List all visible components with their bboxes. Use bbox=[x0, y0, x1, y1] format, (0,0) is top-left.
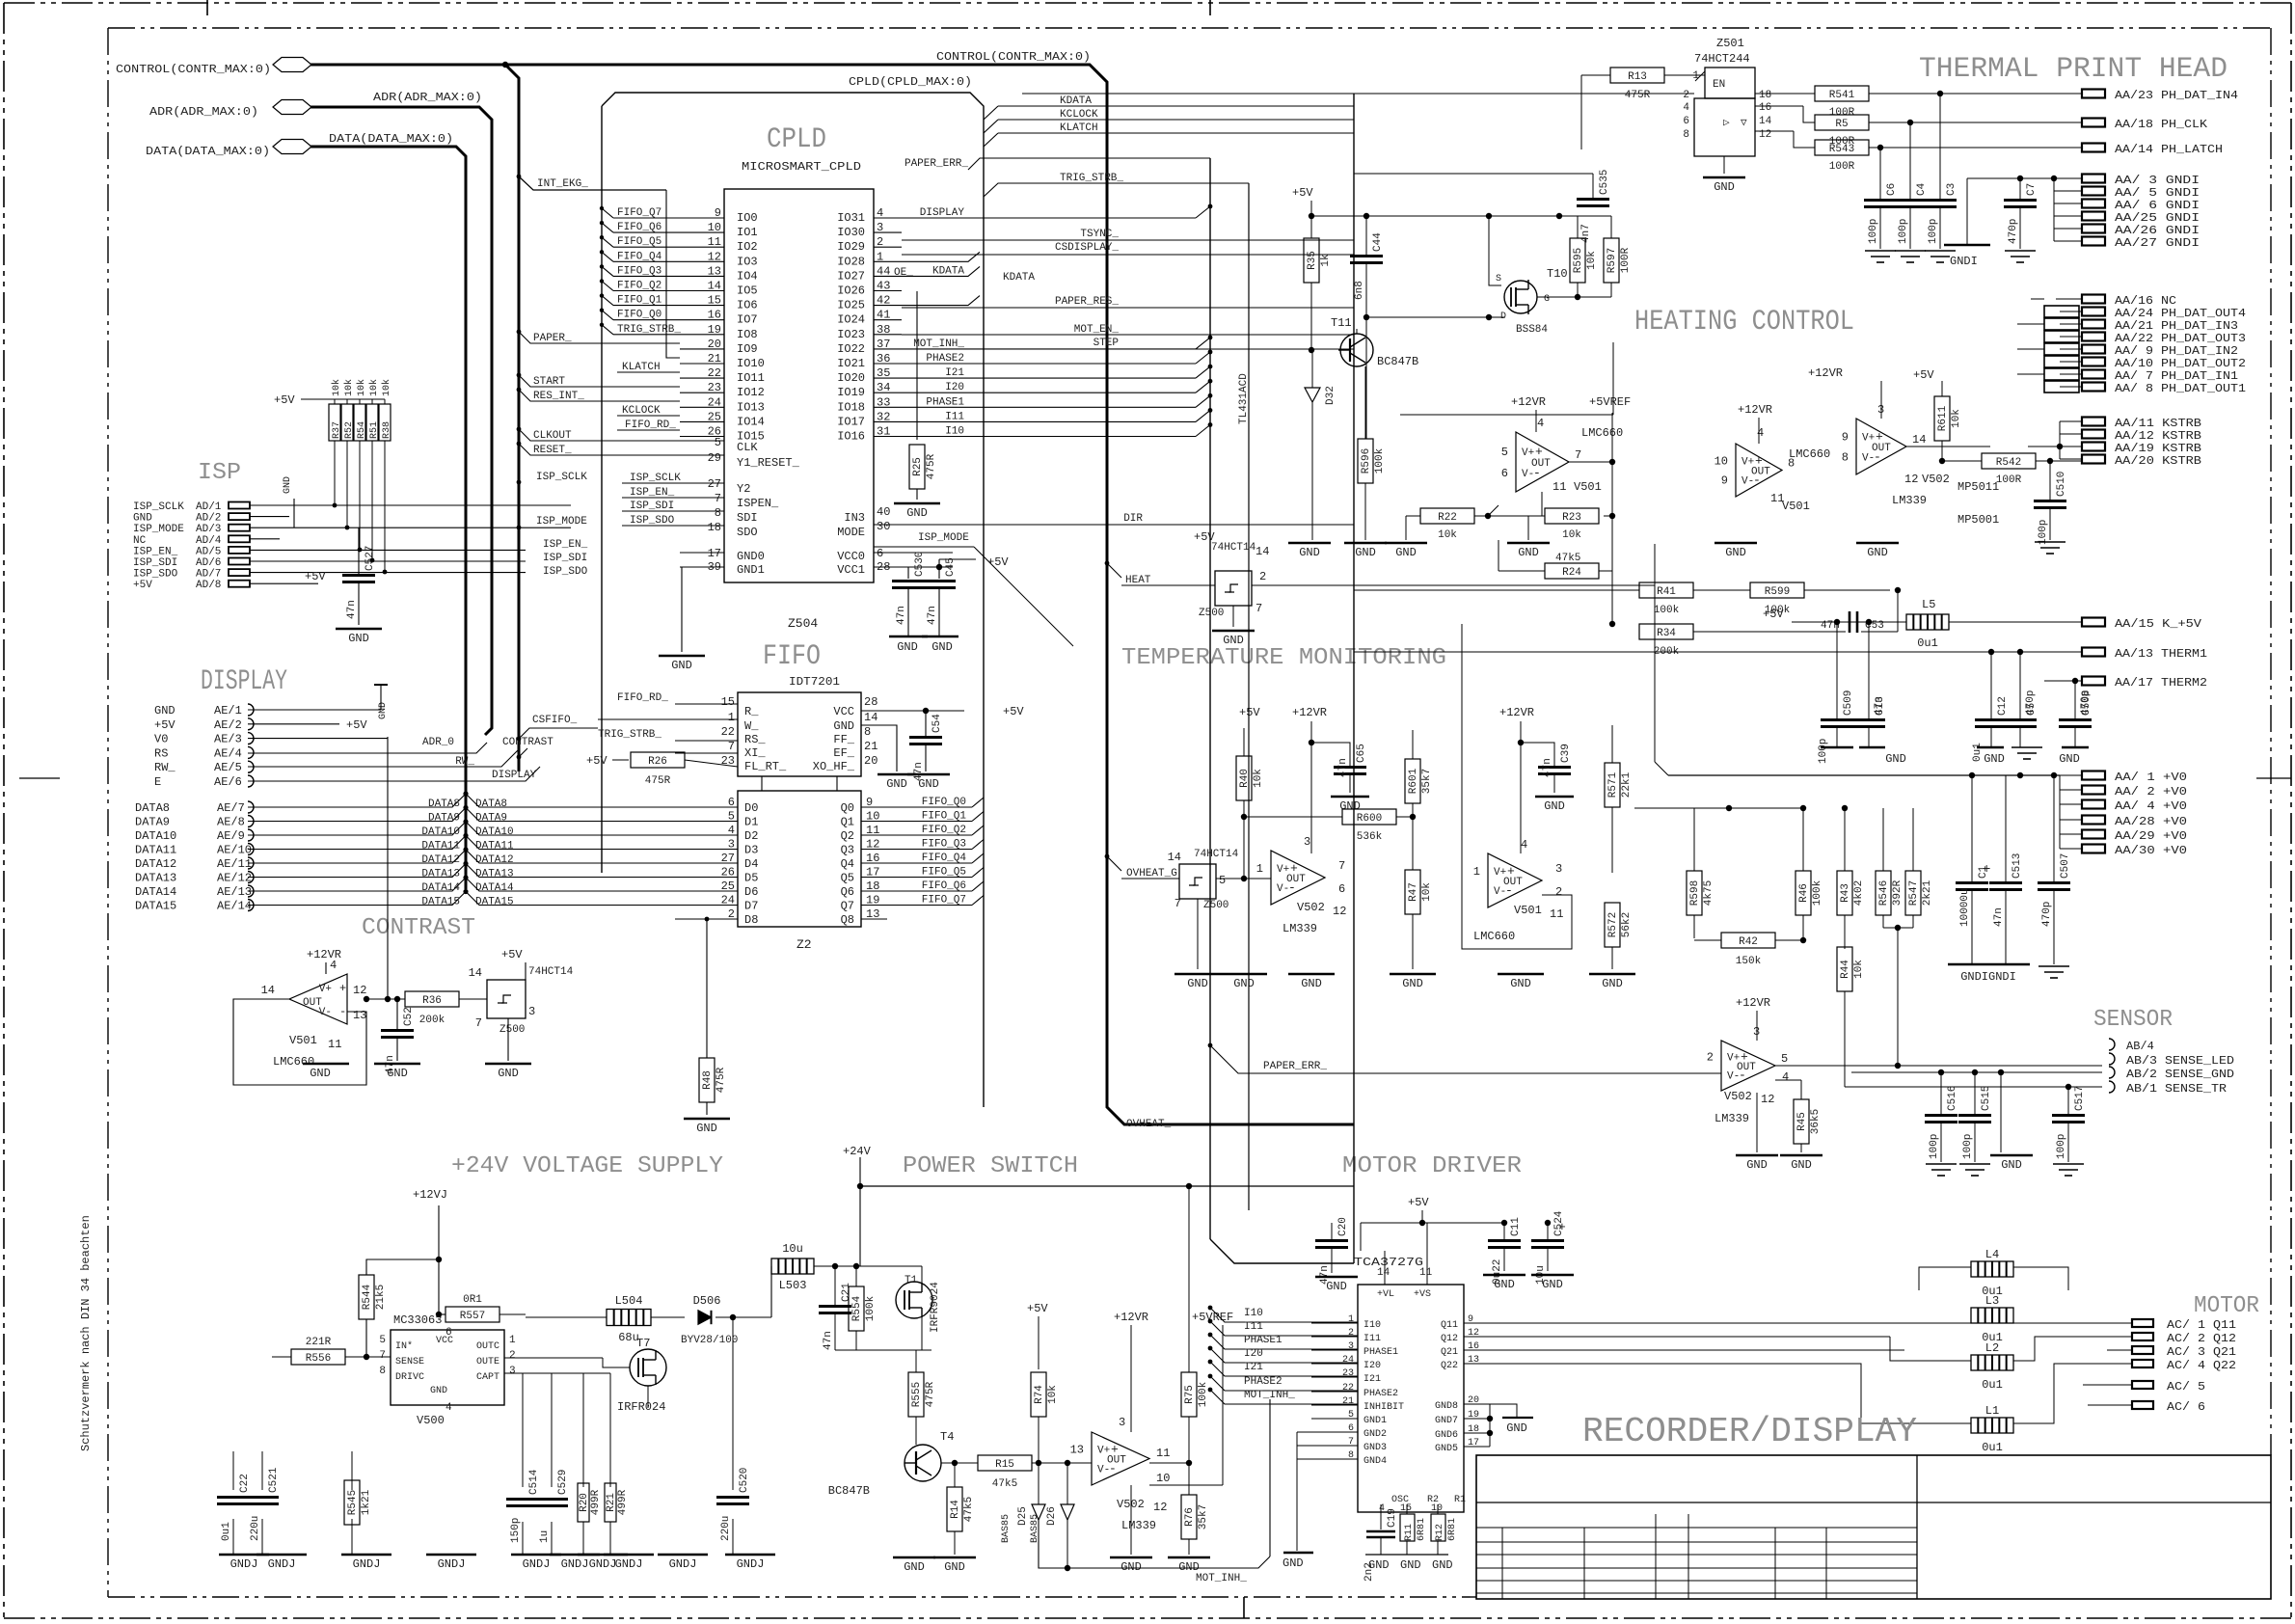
svg-text:FIFO_Q0: FIFO_Q0 bbox=[617, 310, 661, 321]
svg-text:LM339: LM339 bbox=[1892, 494, 1927, 507]
svg-text:FIFO_Q1: FIFO_Q1 bbox=[617, 295, 662, 307]
svg-text:R600: R600 bbox=[1357, 813, 1382, 825]
svg-text:SDO: SDO bbox=[737, 526, 758, 539]
svg-text:AD/7: AD/7 bbox=[196, 569, 221, 581]
svg-text:AC/ 5: AC/ 5 bbox=[2167, 1380, 2205, 1394]
svg-text:CPLD: CPLD bbox=[767, 123, 826, 156]
svg-text:KDATA: KDATA bbox=[932, 265, 964, 277]
svg-text:1: 1 bbox=[509, 1335, 516, 1346]
svg-text:AA/ 5 GNDI: AA/ 5 GNDI bbox=[2115, 186, 2200, 200]
svg-text:SENSE: SENSE bbox=[395, 1357, 424, 1367]
svg-text:▽: ▽ bbox=[1741, 118, 1747, 129]
svg-text:DRIVC: DRIVC bbox=[395, 1372, 424, 1383]
svg-text:EF_: EF_ bbox=[833, 746, 854, 760]
svg-text:D25: D25 bbox=[1017, 1506, 1029, 1526]
svg-text:ADR(ADR_MAX:0): ADR(ADR_MAX:0) bbox=[149, 105, 258, 119]
svg-text:KCLOCK: KCLOCK bbox=[1060, 109, 1098, 121]
svg-text:IO27: IO27 bbox=[837, 269, 865, 283]
svg-text:Q2: Q2 bbox=[841, 829, 854, 843]
svg-text:GNDIGNDI: GNDIGNDI bbox=[1960, 970, 2016, 984]
svg-text:AE/5: AE/5 bbox=[214, 761, 242, 774]
svg-text:+12VJ: +12VJ bbox=[413, 1188, 447, 1202]
svg-text:ISP_SCLK: ISP_SCLK bbox=[133, 501, 184, 513]
svg-text:100p: 100p bbox=[2056, 1134, 2067, 1159]
svg-text:R14: R14 bbox=[950, 1500, 961, 1519]
svg-text:18: 18 bbox=[708, 521, 721, 534]
svg-text:MODE: MODE bbox=[837, 526, 865, 539]
svg-text:PAPER_RES_: PAPER_RES_ bbox=[1055, 296, 1119, 308]
svg-text:1u: 1u bbox=[539, 1530, 551, 1543]
svg-text:IO11: IO11 bbox=[737, 371, 765, 385]
svg-text:2: 2 bbox=[1707, 1051, 1714, 1065]
svg-text:PHASE1: PHASE1 bbox=[1244, 1335, 1282, 1346]
svg-text:470p: 470p bbox=[2008, 219, 2019, 244]
svg-text:GNDJ: GNDJ bbox=[523, 1557, 551, 1571]
svg-text:150p: 150p bbox=[510, 1518, 522, 1543]
svg-text:V501: V501 bbox=[1782, 500, 1810, 513]
svg-text:14: 14 bbox=[1168, 851, 1181, 864]
svg-text:21k5: 21k5 bbox=[375, 1285, 387, 1310]
svg-text:OUTE: OUTE bbox=[476, 1357, 499, 1367]
svg-text:AA/ 2 +V0: AA/ 2 +V0 bbox=[2115, 785, 2187, 798]
svg-text:8: 8 bbox=[1683, 129, 1689, 141]
svg-text:GND: GND bbox=[1432, 1558, 1453, 1572]
svg-text:BSS84: BSS84 bbox=[1516, 324, 1548, 336]
svg-text:GND: GND bbox=[1542, 1278, 1563, 1291]
svg-text:R37: R37 bbox=[332, 421, 342, 439]
svg-text:6: 6 bbox=[1683, 116, 1689, 127]
svg-text:AA/10 PH_DAT_OUT2: AA/10 PH_DAT_OUT2 bbox=[2115, 357, 2246, 370]
svg-text:AE/11: AE/11 bbox=[217, 857, 252, 871]
svg-text:47n: 47n bbox=[1874, 696, 1885, 716]
svg-text:AA/17 THERM2: AA/17 THERM2 bbox=[2115, 676, 2207, 690]
svg-text:IO22: IO22 bbox=[837, 342, 865, 356]
svg-text:LM339: LM339 bbox=[1282, 922, 1317, 935]
svg-text:V502: V502 bbox=[1117, 1498, 1145, 1511]
svg-text:36k5: 36k5 bbox=[1810, 1109, 1822, 1134]
svg-text:R22: R22 bbox=[1438, 512, 1457, 524]
svg-text:I11: I11 bbox=[945, 411, 964, 422]
svg-text:1: 1 bbox=[1256, 862, 1263, 876]
svg-text:AA/19 KSTRB: AA/19 KSTRB bbox=[2115, 442, 2201, 455]
svg-text:R5: R5 bbox=[1835, 119, 1848, 130]
svg-text:+12VR: +12VR bbox=[1738, 403, 1772, 417]
svg-text:ISP_SDO: ISP_SDO bbox=[630, 515, 675, 527]
svg-text:CPLD(CPLD_MAX:0): CPLD(CPLD_MAX:0) bbox=[849, 75, 972, 89]
svg-text:MICROSMART_CPLD: MICROSMART_CPLD bbox=[742, 160, 861, 174]
svg-text:10k: 10k bbox=[1421, 882, 1433, 902]
svg-text:IO31: IO31 bbox=[837, 211, 865, 225]
svg-text:Y2: Y2 bbox=[737, 482, 750, 496]
svg-text:10k: 10k bbox=[331, 379, 342, 396]
svg-text:ISP_EN_: ISP_EN_ bbox=[630, 487, 675, 499]
svg-text:AD/4: AD/4 bbox=[196, 535, 222, 547]
svg-text:7: 7 bbox=[715, 492, 721, 505]
svg-text:18: 18 bbox=[1759, 90, 1771, 101]
svg-text:5: 5 bbox=[1781, 1052, 1788, 1066]
svg-text:GND: GND bbox=[1368, 1558, 1390, 1572]
svg-text:13: 13 bbox=[353, 1009, 366, 1022]
svg-text:AB/4: AB/4 bbox=[2126, 1040, 2154, 1053]
svg-text:DATA11: DATA11 bbox=[135, 844, 176, 857]
svg-text:AD/8: AD/8 bbox=[196, 580, 221, 591]
svg-text:CONTRAST: CONTRAST bbox=[502, 737, 553, 748]
svg-text:AD/2: AD/2 bbox=[196, 513, 221, 525]
svg-text:GND: GND bbox=[2001, 1158, 2022, 1172]
svg-text:FIFO_Q3: FIFO_Q3 bbox=[922, 839, 966, 851]
svg-text:470p: 470p bbox=[2025, 690, 2037, 716]
svg-text:GND: GND bbox=[430, 1386, 447, 1396]
svg-text:TRIG_STRB_: TRIG_STRB_ bbox=[617, 324, 681, 336]
svg-text:LM339: LM339 bbox=[1714, 1112, 1749, 1125]
svg-text:+5V: +5V bbox=[586, 754, 607, 768]
svg-text:15: 15 bbox=[721, 695, 735, 709]
svg-text:C4: C4 bbox=[1916, 182, 1928, 196]
svg-text:+5V: +5V bbox=[1763, 608, 1784, 621]
svg-text:ISP_SDI: ISP_SDI bbox=[543, 553, 587, 564]
svg-text:Z501: Z501 bbox=[1716, 37, 1744, 50]
svg-text:74HCT244: 74HCT244 bbox=[1694, 52, 1750, 66]
svg-text:GND: GND bbox=[1120, 1560, 1142, 1574]
svg-text:IO10: IO10 bbox=[737, 357, 765, 370]
svg-text:FIFO_Q0: FIFO_Q0 bbox=[922, 797, 966, 808]
svg-text:DATA13: DATA13 bbox=[421, 869, 460, 880]
svg-text:GND: GND bbox=[1506, 1421, 1527, 1435]
svg-text:47k5: 47k5 bbox=[992, 1478, 1017, 1490]
svg-text:11: 11 bbox=[1419, 1267, 1433, 1279]
svg-text:KDATA: KDATA bbox=[1060, 95, 1092, 107]
svg-text:R45: R45 bbox=[1796, 1112, 1808, 1131]
svg-text:47k5: 47k5 bbox=[963, 1497, 975, 1522]
svg-text:DIR: DIR bbox=[1123, 513, 1143, 525]
svg-text:R556: R556 bbox=[306, 1353, 331, 1365]
svg-text:470p: 470p bbox=[2080, 690, 2092, 716]
svg-text:+5V: +5V bbox=[1913, 368, 1934, 382]
svg-text:AE/10: AE/10 bbox=[217, 844, 252, 857]
svg-text:GNDJ: GNDJ bbox=[615, 1557, 643, 1571]
svg-text:0u1: 0u1 bbox=[1982, 1441, 2003, 1454]
svg-text:100R: 100R bbox=[1620, 247, 1632, 273]
svg-text:AA/23 PH_DAT_IN4: AA/23 PH_DAT_IN4 bbox=[2115, 89, 2238, 102]
svg-text:AA/12 KSTRB: AA/12 KSTRB bbox=[2115, 429, 2201, 443]
svg-text:TRIG_STRB_: TRIG_STRB_ bbox=[598, 729, 661, 741]
svg-text:IO1: IO1 bbox=[737, 226, 758, 239]
svg-text:AA/22 PH_DAT_OUT3: AA/22 PH_DAT_OUT3 bbox=[2115, 332, 2246, 345]
svg-text:4: 4 bbox=[1537, 417, 1544, 430]
svg-text:+5V: +5V bbox=[346, 718, 367, 732]
svg-text:+VS: +VS bbox=[1414, 1289, 1431, 1300]
svg-text:OUT: OUT bbox=[1503, 877, 1523, 888]
svg-text:C517: C517 bbox=[2074, 1086, 2086, 1111]
svg-text:MP5001: MP5001 bbox=[1957, 513, 1999, 527]
svg-text:C20: C20 bbox=[1337, 1217, 1349, 1236]
svg-text:R554: R554 bbox=[851, 1295, 863, 1321]
svg-text:+5V: +5V bbox=[501, 948, 523, 961]
svg-text:+5V: +5V bbox=[305, 570, 326, 583]
svg-text:C22: C22 bbox=[239, 1474, 251, 1493]
svg-text:4: 4 bbox=[330, 959, 337, 972]
svg-text:AA/24 PH_DAT_OUT4: AA/24 PH_DAT_OUT4 bbox=[2115, 307, 2246, 320]
svg-text:R23: R23 bbox=[1562, 512, 1581, 524]
svg-text:IO26: IO26 bbox=[837, 284, 865, 298]
svg-text:XI_: XI_ bbox=[744, 746, 766, 760]
svg-text:▷: ▷ bbox=[1723, 118, 1730, 129]
svg-text:MOT_INH_: MOT_INH_ bbox=[913, 338, 964, 350]
svg-text:FIFO_Q7: FIFO_Q7 bbox=[617, 207, 661, 219]
svg-text:AE/7: AE/7 bbox=[217, 801, 245, 815]
svg-text:GND: GND bbox=[904, 1560, 925, 1574]
svg-text:16: 16 bbox=[1759, 102, 1771, 114]
svg-text:+12VR: +12VR bbox=[1808, 366, 1843, 380]
svg-text:D32: D32 bbox=[1325, 386, 1336, 405]
svg-text:+12VR: +12VR bbox=[1736, 996, 1770, 1010]
svg-text:D7: D7 bbox=[744, 900, 758, 913]
svg-text:AA/25 GNDI: AA/25 GNDI bbox=[2115, 211, 2200, 225]
svg-text:VCC0: VCC0 bbox=[837, 550, 865, 563]
svg-text:T1: T1 bbox=[904, 1275, 918, 1286]
svg-text:IO4: IO4 bbox=[737, 269, 758, 283]
svg-text:AD/1: AD/1 bbox=[196, 501, 222, 513]
svg-text:Z2: Z2 bbox=[796, 937, 812, 952]
svg-text:1: 1 bbox=[1473, 865, 1480, 879]
svg-text:+5V: +5V bbox=[1194, 530, 1215, 544]
svg-text:R15: R15 bbox=[995, 1459, 1014, 1471]
svg-text:+12VR: +12VR bbox=[1511, 395, 1546, 409]
svg-text:7: 7 bbox=[1338, 859, 1345, 873]
svg-text:DATA10: DATA10 bbox=[421, 826, 460, 838]
svg-text:BC847B: BC847B bbox=[828, 1484, 870, 1498]
svg-text:Q6: Q6 bbox=[841, 885, 854, 899]
svg-text:40: 40 bbox=[877, 505, 890, 519]
svg-text:C65: C65 bbox=[1356, 744, 1367, 763]
svg-text:GND: GND bbox=[671, 659, 692, 672]
svg-text:R543: R543 bbox=[1829, 144, 1854, 155]
svg-text:C515: C515 bbox=[1981, 1086, 1992, 1111]
svg-text:Q0: Q0 bbox=[841, 801, 854, 815]
svg-text:T11: T11 bbox=[1331, 316, 1352, 330]
svg-text:+24V: +24V bbox=[843, 1145, 872, 1158]
svg-text:AE/4: AE/4 bbox=[214, 746, 242, 760]
svg-text:GND8: GND8 bbox=[1435, 1401, 1458, 1412]
svg-text:DATA15: DATA15 bbox=[475, 897, 514, 908]
svg-text:6n8: 6n8 bbox=[1354, 281, 1365, 300]
svg-text:150k: 150k bbox=[1736, 956, 1762, 967]
svg-text:R12: R12 bbox=[1435, 1524, 1445, 1541]
svg-text:200k: 200k bbox=[419, 1015, 445, 1026]
svg-text:DATA15: DATA15 bbox=[421, 897, 460, 908]
svg-text:-: - bbox=[339, 1005, 346, 1018]
svg-text:IO28: IO28 bbox=[837, 255, 865, 268]
svg-text:I10: I10 bbox=[1244, 1308, 1263, 1319]
svg-text:22: 22 bbox=[721, 725, 735, 739]
svg-text:CSDISPLAY_: CSDISPLAY_ bbox=[1055, 242, 1119, 254]
svg-text:GNDJ: GNDJ bbox=[268, 1557, 296, 1571]
svg-text:C530: C530 bbox=[914, 552, 926, 577]
svg-text:8: 8 bbox=[864, 725, 871, 739]
svg-text:ISP_EN_: ISP_EN_ bbox=[133, 546, 178, 557]
svg-text:IO18: IO18 bbox=[837, 400, 865, 414]
svg-text:D6: D6 bbox=[744, 885, 758, 899]
svg-text:GND: GND bbox=[1301, 977, 1322, 990]
svg-text:BAS85: BAS85 bbox=[1001, 1514, 1012, 1543]
svg-text:C535: C535 bbox=[1599, 170, 1610, 195]
svg-text:100k: 100k bbox=[865, 1295, 877, 1321]
svg-text:30: 30 bbox=[877, 520, 890, 533]
svg-text:V500: V500 bbox=[417, 1414, 445, 1427]
svg-text:L2: L2 bbox=[1985, 1341, 1999, 1355]
svg-text:GNDI: GNDI bbox=[1950, 255, 1978, 268]
svg-text:D506: D506 bbox=[693, 1294, 721, 1308]
svg-text:AA/ 8 PH_DAT_OUT1: AA/ 8 PH_DAT_OUT1 bbox=[2115, 382, 2246, 395]
svg-text:Q7: Q7 bbox=[841, 900, 854, 913]
svg-text:I20: I20 bbox=[1363, 1361, 1381, 1371]
svg-text:+: + bbox=[1558, 1220, 1566, 1234]
svg-text:VCC: VCC bbox=[833, 705, 854, 718]
svg-text:R545: R545 bbox=[347, 1490, 359, 1515]
svg-text:I20: I20 bbox=[945, 382, 964, 393]
svg-text:R599: R599 bbox=[1765, 586, 1790, 598]
svg-text:OUT: OUT bbox=[1286, 874, 1306, 885]
svg-text:Z504: Z504 bbox=[788, 616, 818, 631]
svg-text:R51: R51 bbox=[369, 421, 380, 439]
svg-text:GND6: GND6 bbox=[1435, 1430, 1458, 1441]
svg-text:12: 12 bbox=[1761, 1093, 1774, 1106]
svg-text:T4: T4 bbox=[940, 1430, 954, 1444]
svg-text:14: 14 bbox=[1377, 1267, 1390, 1279]
svg-text:5: 5 bbox=[379, 1335, 386, 1346]
svg-text:475R: 475R bbox=[645, 775, 671, 787]
svg-text:DATA12: DATA12 bbox=[421, 854, 460, 866]
svg-text:29: 29 bbox=[708, 451, 721, 465]
svg-text:D2: D2 bbox=[744, 829, 758, 843]
svg-text:INHIBIT: INHIBIT bbox=[1363, 1402, 1404, 1413]
svg-text:6: 6 bbox=[1338, 882, 1345, 896]
svg-text:R74: R74 bbox=[1034, 1385, 1045, 1404]
svg-text:12: 12 bbox=[1904, 473, 1918, 486]
svg-text:AB/1 SENSE_TR: AB/1 SENSE_TR bbox=[2126, 1082, 2227, 1096]
svg-text:6R81: 6R81 bbox=[1447, 1518, 1458, 1541]
svg-text:470p: 470p bbox=[2041, 902, 2053, 927]
svg-text:TEMPERATURE MONITORING: TEMPERATURE MONITORING bbox=[1121, 645, 1446, 671]
svg-text:IRFR9024: IRFR9024 bbox=[930, 1282, 941, 1333]
svg-text:GND: GND bbox=[1867, 546, 1888, 559]
svg-text:BYV28/100: BYV28/100 bbox=[681, 1335, 738, 1346]
svg-text:74HCT14: 74HCT14 bbox=[1194, 849, 1239, 860]
svg-text:R38: R38 bbox=[382, 421, 392, 439]
svg-text:GND: GND bbox=[1187, 977, 1208, 990]
svg-text:FIFO: FIFO bbox=[763, 640, 821, 673]
svg-text:C44: C44 bbox=[1372, 232, 1384, 252]
svg-text:R595: R595 bbox=[1573, 248, 1584, 273]
svg-text:7: 7 bbox=[1255, 602, 1262, 615]
svg-text:AE/13: AE/13 bbox=[217, 885, 252, 899]
svg-text:TL431ACD: TL431ACD bbox=[1238, 373, 1250, 424]
svg-text:I10: I10 bbox=[945, 426, 964, 438]
svg-text:R596: R596 bbox=[1361, 448, 1372, 474]
svg-text:R47: R47 bbox=[1408, 882, 1419, 902]
svg-text:R572: R572 bbox=[1607, 912, 1619, 937]
svg-text:R41: R41 bbox=[1657, 586, 1676, 598]
svg-text:AA/ 7 PH_DAT_IN1: AA/ 7 PH_DAT_IN1 bbox=[2115, 369, 2238, 383]
svg-text:7: 7 bbox=[728, 740, 735, 753]
svg-text:GNDJ: GNDJ bbox=[561, 1557, 589, 1571]
svg-text:R52: R52 bbox=[344, 421, 355, 439]
svg-text:AB/3 SENSE_LED: AB/3 SENSE_LED bbox=[2126, 1054, 2234, 1068]
svg-text:OUT: OUT bbox=[1737, 1062, 1756, 1073]
svg-text:+5V: +5V bbox=[1003, 705, 1024, 718]
svg-text:AA/ 3 GNDI: AA/ 3 GNDI bbox=[2115, 174, 2200, 187]
svg-text:DATA(DATA_MAX:0): DATA(DATA_MAX:0) bbox=[146, 145, 270, 158]
svg-text:2: 2 bbox=[1259, 570, 1266, 583]
svg-text:13: 13 bbox=[1070, 1444, 1084, 1457]
svg-text:GND: GND bbox=[133, 513, 152, 525]
svg-text:14: 14 bbox=[261, 984, 275, 997]
svg-text:Q11: Q11 bbox=[1441, 1320, 1458, 1331]
svg-text:AA/20 KSTRB: AA/20 KSTRB bbox=[2115, 454, 2201, 468]
svg-text:AA/ 4 +V0: AA/ 4 +V0 bbox=[2115, 799, 2187, 813]
svg-text:GNDJ: GNDJ bbox=[438, 1557, 466, 1571]
svg-text:R46: R46 bbox=[1798, 883, 1810, 903]
svg-text:R11: R11 bbox=[1404, 1524, 1415, 1541]
svg-text:ISP_SDI: ISP_SDI bbox=[133, 557, 177, 569]
svg-text:MOT_INH_: MOT_INH_ bbox=[1244, 1390, 1295, 1401]
svg-text:R541: R541 bbox=[1829, 90, 1855, 101]
svg-text:Q4: Q4 bbox=[841, 857, 854, 871]
svg-text:10k: 10k bbox=[1951, 409, 1962, 428]
svg-text:SENSOR: SENSOR bbox=[2093, 1007, 2173, 1033]
svg-text:V502: V502 bbox=[1922, 473, 1950, 486]
svg-text:Q5: Q5 bbox=[841, 872, 854, 885]
svg-text:BC847B: BC847B bbox=[1377, 355, 1418, 368]
svg-text:CAPT: CAPT bbox=[476, 1372, 499, 1383]
svg-text:AD/3: AD/3 bbox=[196, 524, 221, 535]
svg-text:C7: C7 bbox=[2026, 183, 2038, 196]
svg-text:R36: R36 bbox=[422, 995, 442, 1007]
svg-text:DATA(DATA_MAX:0): DATA(DATA_MAX:0) bbox=[329, 132, 453, 146]
svg-text:D3: D3 bbox=[744, 844, 758, 857]
svg-text:1k21: 1k21 bbox=[361, 1489, 372, 1515]
svg-text:IO17: IO17 bbox=[837, 415, 865, 428]
svg-text:3: 3 bbox=[1304, 835, 1310, 849]
svg-text:CSFIFO_: CSFIFO_ bbox=[532, 715, 578, 726]
svg-text:100R: 100R bbox=[1829, 161, 1855, 173]
svg-text:499R: 499R bbox=[590, 1489, 602, 1515]
svg-text:GND: GND bbox=[696, 1122, 717, 1135]
svg-text:IDT7201: IDT7201 bbox=[789, 675, 840, 689]
svg-text:FIFO_Q6: FIFO_Q6 bbox=[922, 880, 966, 892]
svg-text:C6: C6 bbox=[1886, 183, 1898, 196]
svg-text:C529: C529 bbox=[557, 1470, 569, 1495]
svg-text:8: 8 bbox=[715, 506, 721, 520]
svg-text:FL_RT_: FL_RT_ bbox=[744, 760, 787, 773]
svg-text:74HCT14: 74HCT14 bbox=[1211, 542, 1256, 554]
svg-text:GND: GND bbox=[310, 1067, 331, 1080]
svg-text:DISPLAY: DISPLAY bbox=[920, 207, 965, 219]
svg-text:Z500: Z500 bbox=[1199, 608, 1224, 619]
svg-text:GND: GND bbox=[1400, 1558, 1421, 1572]
svg-text:C509: C509 bbox=[1843, 690, 1854, 716]
svg-text:47k5: 47k5 bbox=[1555, 553, 1580, 564]
svg-text:D: D bbox=[1500, 311, 1506, 322]
svg-text:5: 5 bbox=[1501, 446, 1508, 459]
svg-text:GND: GND bbox=[1510, 977, 1531, 990]
svg-text:12: 12 bbox=[353, 984, 366, 997]
svg-text:G: G bbox=[1544, 294, 1550, 305]
svg-text:FIFO_Q5: FIFO_Q5 bbox=[922, 867, 966, 879]
svg-text:GND: GND bbox=[387, 1067, 408, 1080]
svg-text:Schutzvermerk nach DIN 34 beac: Schutzvermerk nach DIN 34 beachten bbox=[79, 1215, 93, 1451]
svg-text:+VL: +VL bbox=[1377, 1289, 1394, 1300]
